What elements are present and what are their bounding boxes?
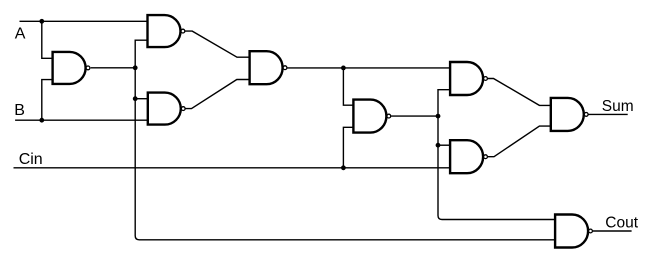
wire B branch to U2 bottom input <box>42 80 53 121</box>
svg-text:Cin: Cin <box>19 151 43 168</box>
wire U3 output diagonal to U4 bottom input <box>185 80 250 109</box>
wire N1 branch to U3 top input <box>135 98 148 100</box>
junction dot Cin branch <box>341 165 346 170</box>
wire node N5 vertical bus to U6 bottom input and down to U9 top input <box>438 90 555 220</box>
svg-text:B: B <box>14 102 25 119</box>
nand U2 <box>53 52 90 84</box>
wire U5 output to node N5 <box>391 115 438 117</box>
wire input Cin <box>14 167 451 169</box>
wire Cin branch to U5 bottom input <box>343 127 353 168</box>
wire input A <box>20 20 148 22</box>
wire N5 branch to U7 top input <box>438 144 450 146</box>
wire N4 branch to U5 top input <box>343 68 353 105</box>
wire Sum output <box>589 113 628 115</box>
junction dot N5 at U5 output <box>436 114 441 119</box>
nand U6 <box>450 62 487 95</box>
nand U5 <box>353 100 390 133</box>
wire U2 output to node N1 <box>91 67 136 69</box>
svg-text:Cout: Cout <box>605 214 638 231</box>
wire U4 output N4 to U6 top input <box>287 67 450 69</box>
nand U3 <box>148 93 185 125</box>
nand U1 <box>148 15 185 47</box>
wire A branch to U2 top input <box>42 21 53 58</box>
nand U8 <box>551 98 588 131</box>
nand U7 <box>450 140 487 173</box>
wire U1 output diagonal to U4 top input <box>185 31 250 57</box>
wire U7 output diagonal to U8 bottom input <box>488 126 551 157</box>
junction dot N4 <box>341 66 346 71</box>
wire node N1 vertical bus with branch to U1 and down to U9 <box>135 40 555 240</box>
junction dot N5 branch to U7 <box>436 143 441 148</box>
nand U4 <box>250 51 287 84</box>
wire U6 output diagonal to U8 top input <box>488 79 551 106</box>
wire input B <box>15 119 148 121</box>
svg-text:A: A <box>15 26 26 43</box>
nand U9 <box>555 215 592 248</box>
junction dot on A <box>39 19 44 24</box>
junction dot on B <box>39 118 44 123</box>
wire Cout output <box>593 230 632 232</box>
svg-text:Sum: Sum <box>602 98 634 115</box>
junction dot N1 at U2 output <box>133 65 138 70</box>
junction dot N1 branch to U3 <box>133 96 138 101</box>
